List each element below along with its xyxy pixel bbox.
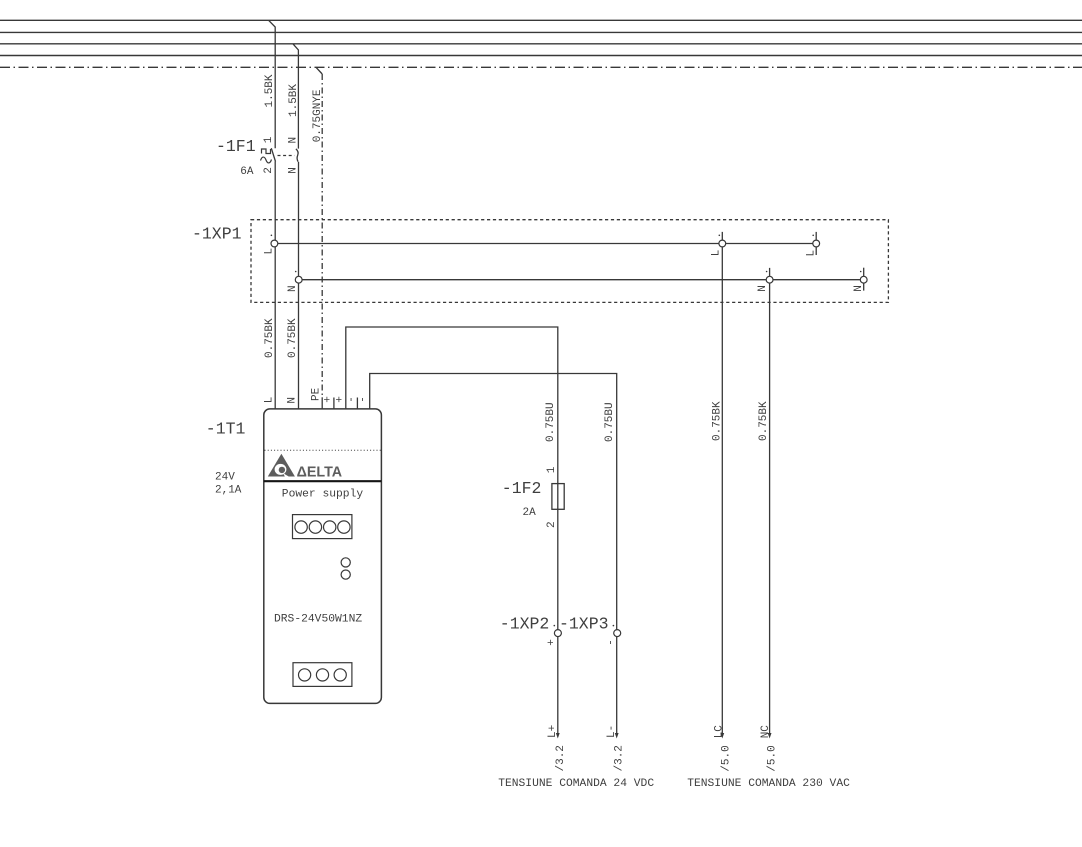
svg-text:0.75BK: 0.75BK (711, 401, 723, 441)
svg-text:+: + (322, 396, 334, 403)
svg-text:TENSIUNE COMANDA 24 VDC: TENSIUNE COMANDA 24 VDC (498, 778, 654, 790)
svg-text:N: N (853, 285, 865, 292)
svg-text:L+: L+ (547, 725, 559, 738)
svg-text:L-: L- (606, 725, 618, 738)
svg-text:N: N (287, 397, 299, 404)
svg-text:0.75BK: 0.75BK (287, 318, 299, 358)
svg-text:-: - (358, 396, 370, 403)
svg-text:24V: 24V (215, 472, 235, 484)
svg-text:0.75BU: 0.75BU (545, 402, 557, 442)
svg-text:LC: LC (714, 725, 726, 739)
svg-text:N: N (287, 285, 299, 292)
svg-text:L: L (264, 248, 276, 255)
svg-text:/3.2: /3.2 (555, 745, 567, 771)
svg-text:1.5BK: 1.5BK (288, 84, 300, 117)
svg-text:NC: NC (760, 725, 772, 739)
svg-text:1: 1 (263, 136, 275, 143)
svg-text:PE: PE (310, 387, 322, 401)
svg-text:L: L (264, 397, 276, 404)
svg-text:N: N (287, 167, 299, 174)
svg-text:-1XP1: -1XP1 (192, 225, 242, 244)
svg-text:/5.0: /5.0 (721, 745, 733, 771)
svg-text:-1XP3: -1XP3 (559, 615, 609, 634)
svg-text:Power supply: Power supply (282, 489, 364, 501)
svg-text:6A: 6A (240, 166, 254, 178)
svg-text:-: - (346, 396, 358, 403)
svg-text:ΔELTA: ΔELTA (297, 464, 342, 480)
svg-text:-1XP2: -1XP2 (500, 615, 550, 634)
svg-text:TENSIUNE COMANDA 230 VAC: TENSIUNE COMANDA 230 VAC (687, 778, 850, 790)
svg-text:/5.0: /5.0 (766, 745, 778, 771)
svg-text:-1F2: -1F2 (502, 479, 542, 498)
svg-text:/3.2: /3.2 (613, 745, 625, 771)
svg-text:+: + (334, 396, 346, 403)
svg-text:2,1A: 2,1A (215, 485, 242, 497)
svg-text:2: 2 (546, 521, 558, 528)
svg-text:2: 2 (263, 167, 275, 174)
svg-text:1.5BK: 1.5BK (264, 74, 276, 107)
svg-text:N: N (757, 285, 769, 292)
svg-text:1: 1 (546, 466, 558, 473)
svg-text:-: - (606, 639, 618, 646)
svg-text:0.75GNYE: 0.75GNYE (312, 89, 324, 142)
svg-text:-1F1: -1F1 (216, 137, 256, 156)
svg-text:L: L (710, 250, 722, 257)
svg-text:L: L (806, 250, 818, 257)
svg-text:DRS-24V50W1NZ: DRS-24V50W1NZ (274, 613, 362, 625)
svg-text:0.75BU: 0.75BU (604, 402, 616, 442)
svg-text:0.75BK: 0.75BK (264, 318, 276, 358)
svg-text:+: + (546, 639, 558, 646)
svg-text:0.75BK: 0.75BK (758, 401, 770, 441)
svg-text:N: N (287, 137, 299, 144)
svg-text:2A: 2A (523, 507, 537, 519)
svg-text:-1T1: -1T1 (206, 419, 246, 438)
